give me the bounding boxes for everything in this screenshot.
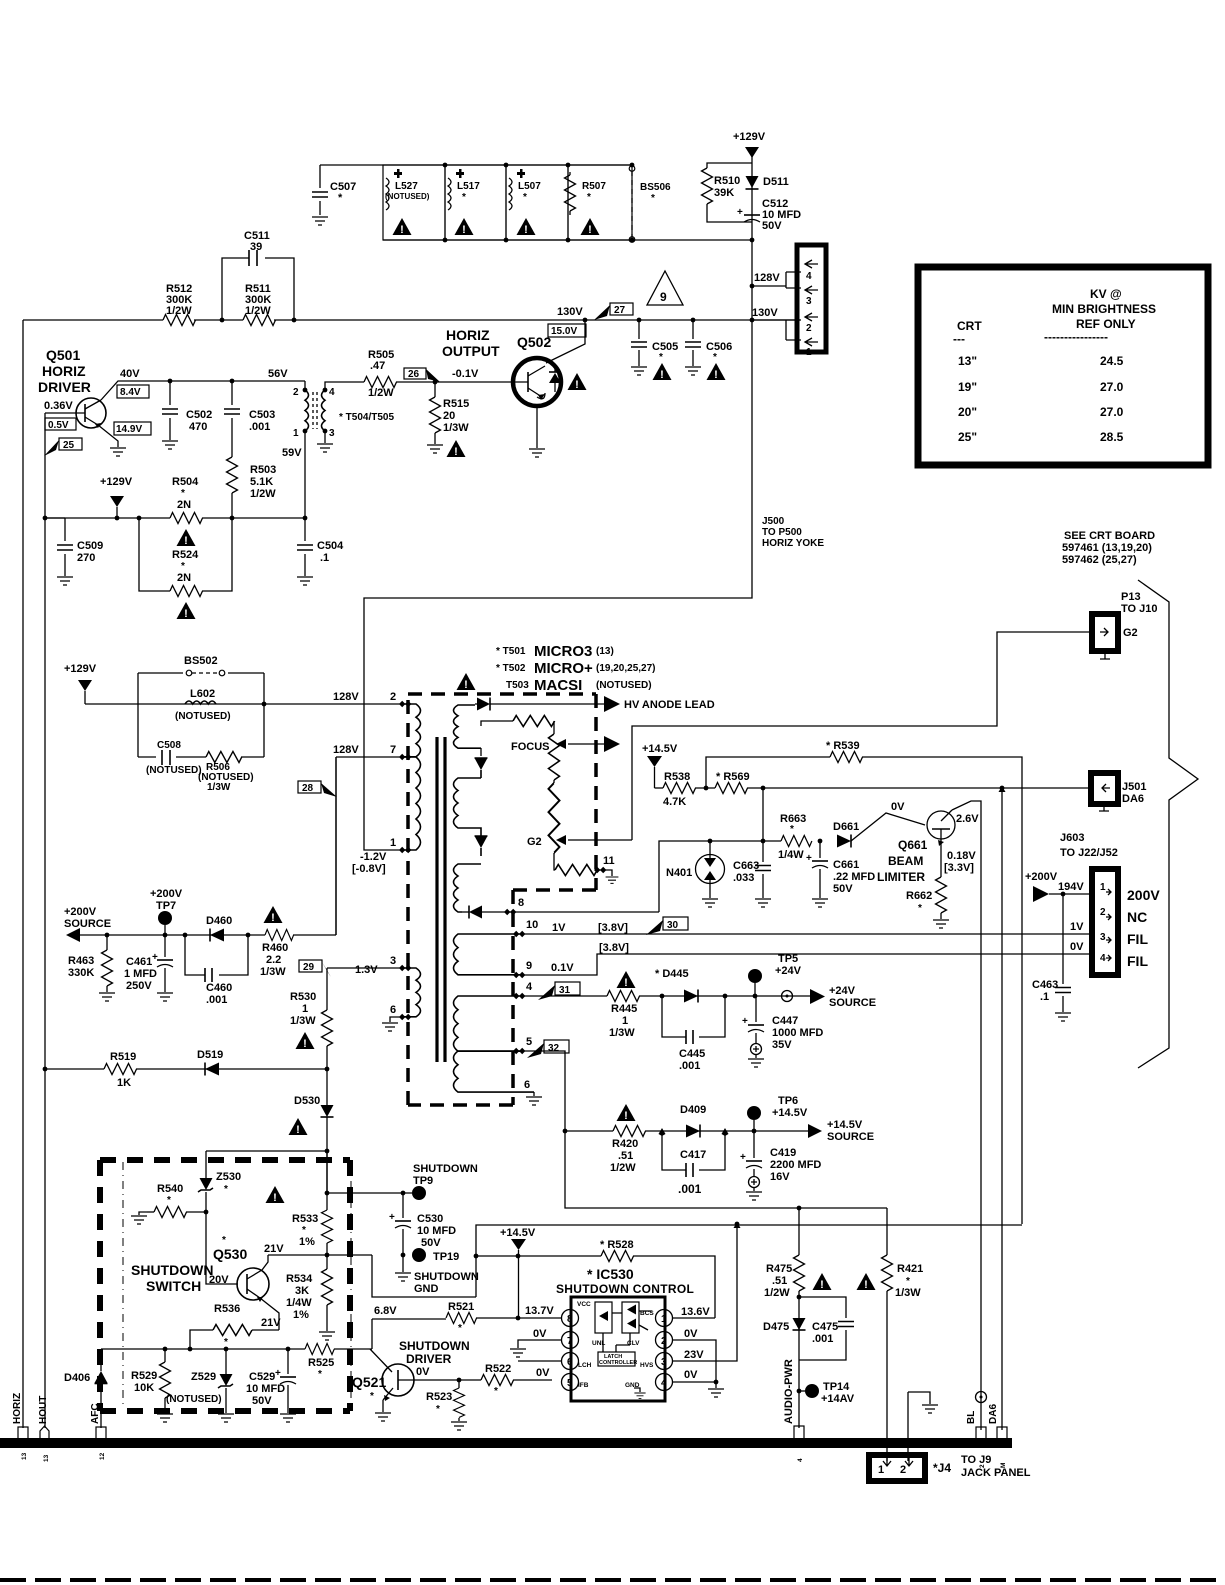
svg-text:G2: G2 [1123, 627, 1138, 639]
svg-text:4: 4 [329, 387, 335, 398]
svg-text:1/4W: 1/4W [286, 1297, 312, 1309]
svg-text:AFC: AFC [90, 1403, 101, 1424]
svg-text:D511: D511 [763, 176, 789, 188]
svg-text:1/3W: 1/3W [895, 1287, 921, 1299]
svg-text:.001: .001 [678, 1182, 702, 1196]
capacitor C503 .001 [231, 381, 233, 457]
diode D530 [321, 1105, 334, 1117]
svg-text:3: 3 [1100, 932, 1106, 943]
pin BL [976, 1427, 986, 1439]
svg-text:BL: BL [966, 1411, 977, 1424]
svg-text:MACSI: MACSI [534, 677, 582, 694]
svg-text:1/2W: 1/2W [245, 305, 271, 317]
flyback pin 7 [399, 754, 411, 760]
node C661 junction [818, 839, 823, 844]
svg-text:50V: 50V [252, 1395, 272, 1407]
svg-text:(NOTUSED): (NOTUSED) [175, 711, 231, 722]
pin AUDIO-PWR [794, 1426, 804, 1439]
resistor R663 1/4W [781, 836, 812, 847]
ground C661 [812, 899, 828, 907]
wire Q661 collector to BL [952, 801, 981, 1430]
capacitor C463 .1 [1062, 894, 1064, 1012]
ground pin6 bottom [533, 1092, 535, 1096]
wire beam row from pin8 [659, 788, 781, 912]
svg-text:*: * [318, 1369, 322, 1380]
svg-text:R523: R523 [426, 1391, 452, 1403]
capacitor C461 1 MFD 250V [164, 935, 166, 957]
svg-text:200V: 200V [1127, 887, 1160, 903]
wire +129V down [751, 156, 753, 240]
svg-text:20: 20 [443, 410, 455, 422]
svg-text:*: * [222, 1235, 226, 1246]
svg-text:1/4W: 1/4W [778, 849, 804, 861]
ground C529 [280, 1414, 296, 1422]
secondary winding pin4-5-6 [454, 996, 523, 1051]
ground T504 pin3 [324, 431, 326, 443]
svg-text:0.5V: 0.5V [48, 420, 69, 431]
svg-text:1: 1 [390, 837, 396, 849]
svg-text:+129V: +129V [100, 476, 133, 488]
svg-text:39: 39 [250, 241, 262, 253]
svg-text:6.8V: 6.8V [374, 1305, 397, 1317]
pin 1 [656, 1310, 673, 1327]
svg-text:21V: 21V [261, 1317, 281, 1329]
IC inner wires [603, 1311, 652, 1352]
svg-text:1: 1 [622, 1015, 628, 1027]
svg-text:*: * [167, 1195, 171, 1206]
pin 8 [562, 1310, 579, 1327]
wire R475 to audio pin [798, 1291, 800, 1428]
secondary winding pin10-9 [454, 934, 523, 975]
flag 28 [298, 781, 321, 793]
svg-text:29: 29 [303, 962, 315, 973]
svg-text:1/3W: 1/3W [290, 1015, 316, 1027]
resistor R522 [481, 1375, 514, 1386]
wire Q521 emitter ground [382, 1400, 384, 1412]
svg-text:597461 (13,19,20): 597461 (13,19,20) [1062, 542, 1152, 554]
svg-text:R475: R475 [766, 1263, 792, 1275]
wire Q501 base [45, 413, 77, 518]
wire pin8 out [513, 911, 659, 913]
pin DA6 [997, 1427, 1007, 1439]
svg-text:10 MFD: 10 MFD [246, 1383, 285, 1395]
ground C504 [297, 577, 313, 585]
svg-text:14.9V: 14.9V [116, 424, 142, 435]
svg-text:R421: R421 [897, 1263, 923, 1275]
svg-text:*: * [790, 824, 794, 835]
svg-text:27: 27 [614, 305, 626, 316]
svg-text:IFB: IFB [578, 1382, 589, 1389]
svg-text:Q502: Q502 [517, 334, 551, 350]
svg-text:OUTPUT: OUTPUT [442, 343, 500, 359]
flyback pin 6 left [399, 1014, 411, 1020]
svg-text:Z530: Z530 [216, 1171, 241, 1183]
svg-text:1: 1 [661, 1314, 667, 1325]
wire 0V to Q661 base [851, 813, 925, 841]
svg-text:128V: 128V [754, 272, 780, 284]
capacitor C502 470 [169, 381, 171, 440]
ground R529 [157, 1414, 173, 1422]
svg-text:*: * [224, 1184, 228, 1195]
svg-text:[3.8V]: [3.8V] [599, 942, 629, 954]
svg-text:0V: 0V [533, 1328, 547, 1340]
node D445 left [660, 994, 665, 999]
warning flyback [457, 673, 476, 691]
svg-text:*: * [587, 192, 591, 203]
svg-text:AUDIO-PWR: AUDIO-PWR [783, 1359, 795, 1424]
wire pin4 to R505 [325, 382, 364, 390]
ground C447 [748, 1059, 764, 1067]
bottom dashed border [0, 1578, 1225, 1582]
svg-text:50V: 50V [762, 220, 782, 232]
resistor R505 .47 1/2W [364, 377, 397, 388]
svg-text:1/2W: 1/2W [250, 488, 276, 500]
wire 1V rail pin10 [522, 933, 1094, 935]
svg-text:C417: C417 [680, 1149, 706, 1161]
warning R515 [447, 440, 466, 458]
wire bottom filter rail [383, 239, 753, 241]
svg-text:13: 13 [21, 1452, 28, 1460]
wire 194V to J603 [1049, 893, 1094, 895]
label 0.5V boxed [45, 418, 76, 430]
svg-text:+: + [806, 853, 812, 864]
svg-text:*: * [370, 1391, 374, 1402]
svg-text:4.7K: 4.7K [663, 796, 686, 808]
testpoint TP19 [401, 1253, 406, 1258]
svg-text:R445: R445 [611, 1003, 637, 1015]
svg-text:-0.1V: -0.1V [452, 368, 479, 380]
svg-text:LIMITER: LIMITER [877, 870, 925, 884]
svg-text:Z529: Z529 [191, 1371, 216, 1383]
svg-text:JACK PANEL: JACK PANEL [961, 1467, 1031, 1479]
svg-text:+: + [152, 952, 158, 963]
svg-text:L517: L517 [457, 181, 480, 192]
svg-text:HORIZ YOKE: HORIZ YOKE [762, 538, 824, 549]
svg-text:R525: R525 [308, 1357, 334, 1369]
svg-text:0.18V: 0.18V [947, 850, 976, 862]
svg-text:MIN BRIGHTNESS: MIN BRIGHTNESS [1052, 302, 1156, 316]
block L602 outline [138, 673, 264, 757]
svg-text:*: * [302, 1225, 306, 1236]
ground C509 [57, 577, 73, 585]
svg-text:3: 3 [329, 428, 335, 439]
svg-text:C419: C419 [770, 1147, 796, 1159]
svg-text:470: 470 [189, 421, 207, 433]
svg-text:R420: R420 [612, 1138, 638, 1150]
flyback pin 1 [399, 847, 411, 853]
svg-text:---: --- [953, 332, 965, 346]
wire R504 rail [45, 517, 305, 519]
svg-text:4: 4 [806, 271, 812, 282]
svg-text:13: 13 [43, 1454, 50, 1462]
svg-text:1/2W: 1/2W [368, 387, 394, 399]
svg-text:KV @: KV @ [1090, 287, 1122, 301]
ground R534 [319, 1332, 335, 1340]
resistor R523 [458, 1380, 460, 1388]
svg-text:5: 5 [526, 1036, 532, 1048]
svg-text:HVS: HVS [640, 1362, 654, 1369]
svg-text:.47: .47 [370, 360, 385, 372]
svg-text:1%: 1% [299, 1236, 315, 1248]
table KV box [918, 267, 1208, 465]
svg-text:TP9: TP9 [413, 1175, 433, 1187]
wire D530 down to shutdown [326, 1117, 328, 1193]
svg-text:56V: 56V [268, 368, 288, 380]
svg-text:39K: 39K [714, 187, 734, 199]
svg-text:7: 7 [567, 1336, 573, 1347]
focus pot resistor top [481, 721, 513, 726]
flag 30 [663, 917, 688, 930]
svg-text:.51: .51 [618, 1150, 633, 1162]
warning Z530 [266, 1186, 285, 1204]
svg-text:1/3W: 1/3W [260, 966, 286, 978]
wire Q501 emitter to ground [98, 425, 118, 447]
svg-text:BCS: BCS [640, 1310, 654, 1317]
resistor R504 2N [170, 513, 203, 524]
svg-text:+: + [389, 1212, 395, 1223]
warning R420 [617, 1104, 636, 1122]
resistor R503 5.1K 1/2W [227, 457, 238, 493]
pin 6 [562, 1353, 579, 1370]
ground Z529 [218, 1414, 234, 1422]
svg-text:+14AV: +14AV [821, 1393, 855, 1405]
ground R523 [451, 1422, 467, 1430]
svg-text:10: 10 [526, 919, 538, 931]
flag 31 [555, 982, 580, 995]
svg-text:(NOTUSED): (NOTUSED) [596, 680, 652, 691]
svg-text:TO J10: TO J10 [1121, 603, 1158, 615]
resistor R534 3K 1/4W 1% [322, 1269, 333, 1305]
svg-text:10K: 10K [134, 1382, 154, 1394]
diode D511 [746, 176, 759, 188]
svg-text:D406: D406 [64, 1372, 90, 1384]
svg-text:9: 9 [660, 290, 667, 304]
resistor R475 .51 1/2W [798, 1208, 800, 1255]
svg-text:HOUT: HOUT [38, 1396, 49, 1424]
svg-text:CONTROLLER: CONTROLLER [599, 1360, 637, 1366]
resistor R538 4.7K [655, 787, 664, 789]
wire C512 down to J500 [751, 240, 753, 320]
resistor R521 [446, 1313, 477, 1324]
svg-text:13": 13" [958, 354, 977, 368]
svg-text:4: 4 [797, 1458, 804, 1462]
node R569/N401 junction [761, 786, 766, 791]
ground C505 [631, 367, 647, 375]
svg-text:.001: .001 [249, 421, 270, 433]
svg-text:*: * [918, 903, 922, 914]
node junctions filter rails [443, 163, 448, 168]
svg-text:FIL: FIL [1127, 953, 1148, 969]
wire +200V rail [80, 757, 336, 935]
svg-text:2: 2 [661, 1336, 667, 1347]
wire 0V rail pin9 [522, 954, 1094, 975]
svg-text:1: 1 [1100, 882, 1106, 893]
node D460 left [183, 933, 188, 938]
svg-text:30: 30 [667, 920, 679, 931]
capacitor C417 .001 loop [662, 1135, 725, 1170]
svg-text:2.2: 2.2 [266, 954, 281, 966]
resistor R662 [940, 848, 942, 877]
resistor R421 1/3W [882, 1255, 893, 1291]
wire big loop from 130V down to flyback pin1 [364, 320, 752, 850]
svg-text:1/2W: 1/2W [166, 305, 192, 317]
pot bottom resistor to pin11 [554, 853, 555, 870]
primary winding upper [400, 704, 421, 757]
resistor R515 20 1/3W [433, 380, 438, 385]
wire shutdown bottom rail [101, 1348, 372, 1350]
warning R460 [264, 906, 283, 924]
ground N401 [702, 899, 718, 907]
svg-text:31: 31 [559, 985, 571, 996]
svg-text:23V: 23V [684, 1349, 704, 1361]
svg-text:*: * [659, 352, 663, 363]
svg-text:25: 25 [63, 440, 75, 451]
svg-text:1%: 1% [293, 1309, 309, 1321]
svg-text:+: + [737, 207, 743, 218]
svg-text:SHUTDOWN: SHUTDOWN [399, 1339, 470, 1353]
flag 29 [299, 960, 322, 972]
svg-text:0.1V: 0.1V [551, 962, 574, 974]
svg-text:32: 32 [548, 1043, 560, 1054]
resistor R529 10K [164, 1349, 166, 1362]
focus wiper arrow [568, 743, 604, 745]
capacitor C505 [637, 318, 642, 323]
svg-text:.1: .1 [1040, 991, 1049, 1003]
diode D460 [210, 929, 224, 942]
resistor R506 [206, 752, 242, 763]
connector J501 [1091, 773, 1118, 804]
wire 130V bracket [752, 320, 801, 340]
brace CRT board [1138, 580, 1198, 1068]
svg-text:+: + [742, 1016, 748, 1027]
wire pin6 stub [518, 1360, 561, 1362]
wire R530 to D530 [326, 1069, 328, 1105]
svg-text:128V: 128V [333, 744, 359, 756]
svg-text:+14.5V: +14.5V [772, 1107, 808, 1119]
node L602 junction [262, 702, 267, 707]
svg-text:R538: R538 [664, 771, 690, 783]
svg-text:4: 4 [526, 981, 533, 993]
svg-text:250V: 250V [126, 980, 152, 992]
svg-text:HORIZ: HORIZ [12, 1393, 23, 1424]
svg-text:28: 28 [302, 783, 314, 794]
arrow FOCUS out [604, 736, 620, 752]
wire Q530 collector [262, 1255, 268, 1270]
svg-text:.1: .1 [320, 552, 329, 564]
transistor Q530 [237, 1268, 269, 1300]
svg-text:1/3W: 1/3W [207, 782, 231, 793]
svg-text:SOURCE: SOURCE [64, 918, 111, 930]
svg-text:R515: R515 [443, 398, 469, 410]
svg-text:R662: R662 [906, 890, 932, 902]
svg-text:50V: 50V [833, 883, 853, 895]
svg-text:BS502: BS502 [184, 655, 218, 667]
warning R475 [813, 1273, 832, 1291]
node junction C511 right [292, 318, 297, 323]
label 15.0V boxed [548, 324, 586, 337]
svg-text:SHUTDOWN: SHUTDOWN [413, 1163, 478, 1175]
inductor box L517 [445, 165, 506, 240]
capacitor C663 .033 [762, 841, 764, 898]
svg-text:SHUTDOWN: SHUTDOWN [131, 1262, 213, 1278]
svg-text:0V: 0V [684, 1369, 698, 1381]
svg-text:SOURCE: SOURCE [829, 997, 876, 1009]
svg-text:R504: R504 [172, 476, 199, 488]
svg-text:1000 MFD: 1000 MFD [772, 1027, 823, 1039]
svg-text:R529: R529 [131, 1370, 157, 1382]
warning L507 [517, 218, 536, 236]
svg-text:FIL: FIL [1127, 931, 1148, 947]
ground R662 [933, 920, 949, 928]
svg-text:13.6V: 13.6V [681, 1306, 710, 1318]
flag 27 [610, 303, 633, 315]
ground R540 [139, 1212, 147, 1215]
capacitor C460 .001 loop [185, 935, 248, 975]
svg-text:MICRO3: MICRO3 [534, 643, 592, 660]
svg-text:1: 1 [302, 1003, 308, 1015]
svg-text:2: 2 [806, 323, 812, 334]
svg-text:*: * [338, 192, 343, 204]
svg-text:C505: C505 [652, 341, 678, 353]
bus bar ground [0, 1438, 1012, 1448]
svg-text:TP5: TP5 [778, 953, 798, 965]
svg-text:330K: 330K [68, 967, 94, 979]
wire R519 D519 [45, 1068, 327, 1070]
svg-text:1: 1 [293, 428, 299, 439]
diode D519 [205, 1063, 219, 1076]
wire 128V rail to pin2 [85, 703, 400, 705]
svg-text:* D445: * D445 [655, 968, 689, 980]
capacitor C504 .1 [303, 516, 308, 521]
resistor R525 [305, 1344, 334, 1355]
svg-text:* R539: * R539 [826, 740, 860, 752]
pin 3 [656, 1353, 673, 1370]
zener Z529 [225, 1349, 227, 1374]
svg-text:130V: 130V [752, 307, 778, 319]
arrow +24V SOURCE [810, 989, 825, 1004]
svg-text:6: 6 [524, 1079, 530, 1091]
pot G2 vertical resistor [553, 780, 555, 783]
svg-text:2200 MFD: 2200 MFD [770, 1159, 821, 1171]
svg-text:.001: .001 [206, 994, 227, 1006]
ground C507 [312, 217, 328, 225]
flyback dashed outline [408, 694, 596, 1105]
ground C461 [157, 993, 173, 1001]
svg-text:D409: D409 [680, 1104, 706, 1116]
svg-text:1/2W: 1/2W [610, 1162, 636, 1174]
svg-text:UNL: UNL [592, 1340, 605, 1347]
svg-text:8.4V: 8.4V [120, 387, 141, 398]
svg-text:HV ANODE LEAD: HV ANODE LEAD [624, 699, 715, 711]
diode HV mid1 [475, 758, 488, 770]
label 14.9V boxed [114, 422, 151, 435]
node R538/R539 junction [704, 786, 709, 791]
diode HV mid2 [475, 836, 488, 848]
wire top filter rail [320, 164, 632, 166]
svg-text:CRT: CRT [957, 319, 982, 333]
svg-text:R510: R510 [714, 175, 740, 187]
svg-text:+14.5V: +14.5V [500, 1227, 536, 1239]
svg-text:0V: 0V [536, 1367, 550, 1379]
primary winding lower [400, 757, 421, 850]
symbol circled dot BL [976, 1392, 987, 1403]
ground C419 [746, 1192, 762, 1200]
svg-text:3: 3 [390, 955, 396, 967]
wire Q502 emitter down to ground [536, 407, 538, 448]
svg-text:2: 2 [900, 1464, 906, 1476]
svg-text:8: 8 [518, 897, 524, 909]
opamp block 2 [622, 1302, 639, 1333]
